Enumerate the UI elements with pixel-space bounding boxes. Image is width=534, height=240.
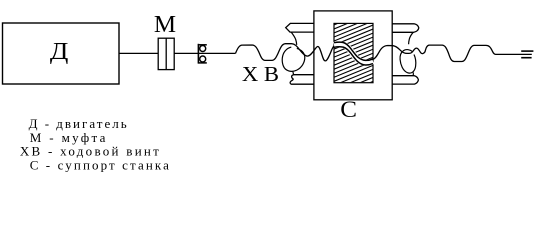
left guide bracket bottom flange (290, 75, 314, 85)
wire coupling to bearing to screw (174, 52, 235, 54)
svg-text:С - суппорт станка: С - суппорт станка (30, 158, 171, 173)
svg-text:С: С (340, 98, 357, 123)
label ХВ (lead screw) (242, 62, 279, 86)
right guide bracket neck (409, 32, 414, 44)
svg-text:М: М (154, 12, 176, 38)
legend line 1: Д - двигатель (29, 116, 129, 131)
right guide bracket bottom flange (392, 76, 418, 84)
right guide bracket top flange (392, 24, 419, 33)
left guide bracket neck (291, 32, 296, 45)
svg-text:Х В: Х В (242, 62, 279, 86)
carriage box С (314, 11, 392, 100)
motor box Д (3, 23, 120, 84)
label Д (motor) (50, 37, 69, 64)
screw passing through nut (double line with white band) (334, 42, 373, 65)
lead screw wave ХВ (left of carriage) (236, 44, 335, 61)
label M (coupling) (154, 12, 176, 38)
label С (carriage) (340, 98, 357, 123)
right guide bracket belly (400, 50, 416, 74)
legend line 4: С - суппорт станка (30, 158, 171, 173)
svg-text:ХВ - ходовой винт: ХВ - ходовой винт (20, 143, 161, 158)
legend line 3: ХВ - ходовой винт (20, 143, 161, 158)
frame anchor at screw end (521, 51, 533, 58)
left guide bracket belly (282, 47, 305, 71)
nut hatched block (332, 8, 375, 98)
left guide bracket top flange (286, 23, 314, 32)
right guide bracket stem (412, 72, 414, 75)
left guide bracket stem (292, 71, 295, 75)
bearing support (198, 44, 206, 64)
lead screw wave (right of nut, through right bracket, to tail) (373, 45, 532, 61)
svg-text:Д: Д (50, 37, 69, 64)
coupling M (158, 38, 174, 69)
wire motor shaft (119, 52, 158, 54)
legend line 2: М - муфта (30, 130, 108, 145)
